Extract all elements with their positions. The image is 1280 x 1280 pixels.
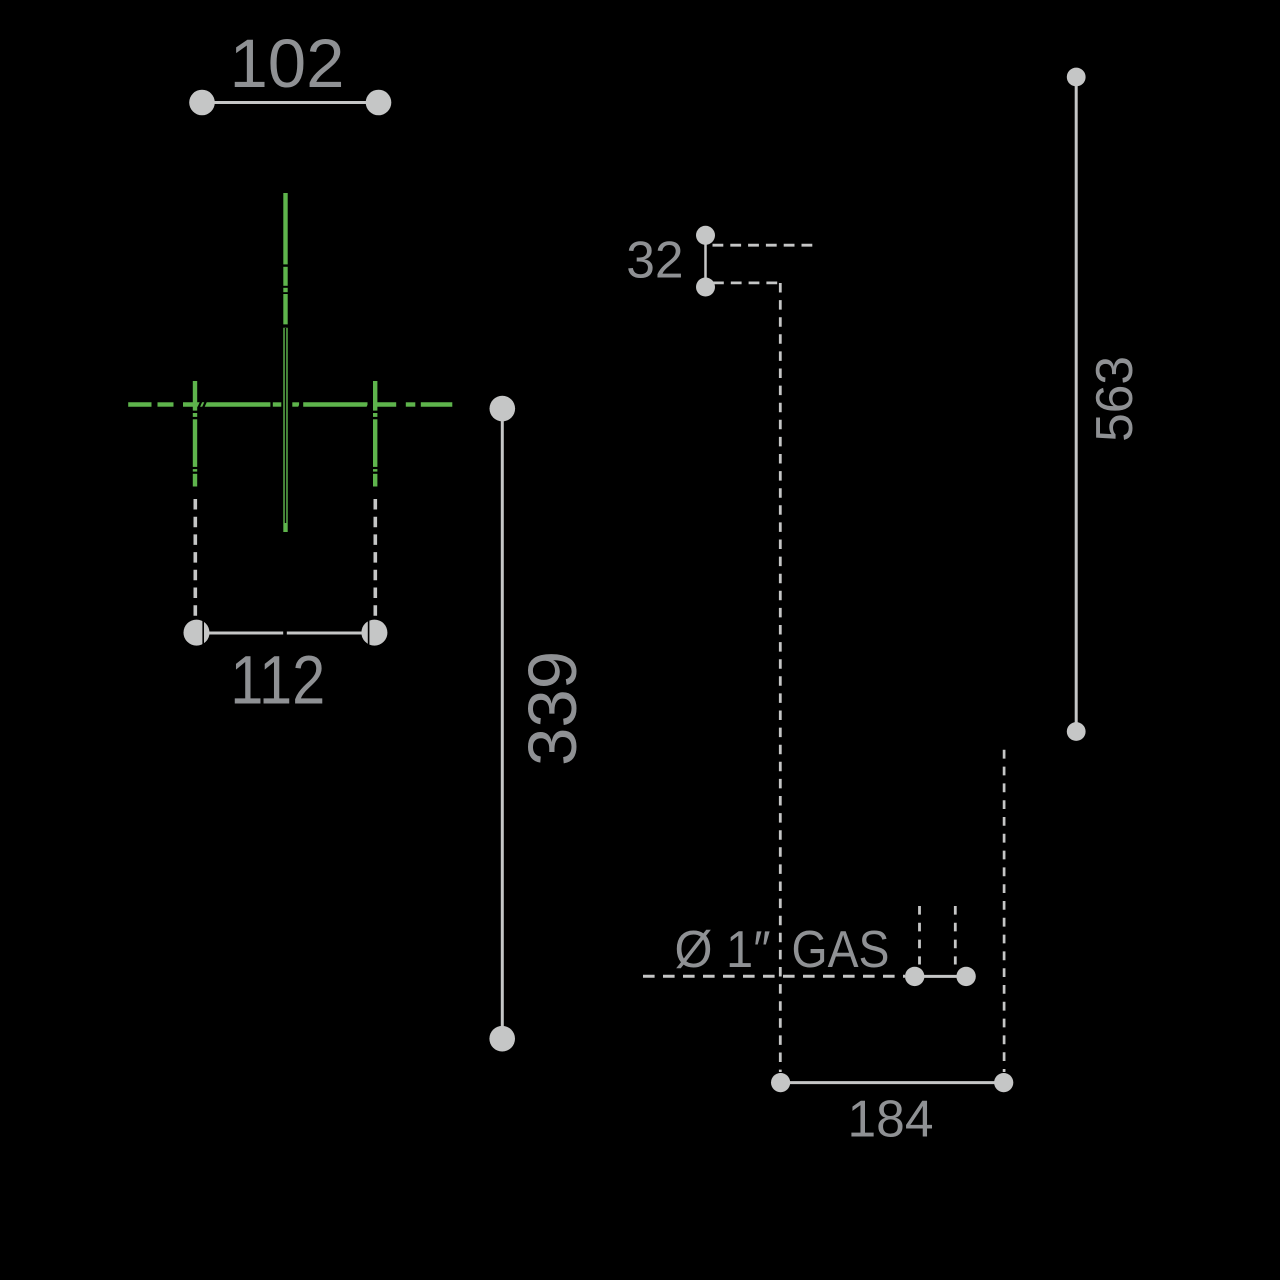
dim dot 184 right (994, 1073, 1013, 1092)
gray dashed extension line below right cross (373, 499, 377, 617)
dashed extension line right column (1003, 750, 1006, 1072)
gray dashed extension line below left cross (194, 499, 198, 617)
svg-text:112: 112 (230, 641, 325, 718)
dim dot 32 top (696, 226, 715, 245)
gas mini dim dot left (905, 967, 924, 986)
dimension line 184 (781, 1081, 1004, 1084)
svg-text:Ø 1″: Ø 1″ (675, 920, 771, 978)
svg-text:184: 184 (848, 1090, 934, 1148)
dimension line 112 (197, 632, 375, 635)
gas thread mini dimension: short dashed line left (918, 906, 921, 965)
black interruption ticks on center axis (283, 264, 288, 294)
dim dot 102 right (366, 90, 392, 116)
long dashed extension line down from 32 (779, 283, 782, 1072)
black gap on 112 line at center axis (283, 630, 287, 636)
black outline slits over 112 dots (202, 619, 204, 646)
svg-text:339: 339 (514, 651, 591, 766)
svg-text:GAS: GAS (792, 920, 890, 978)
dim dot 339 bottom (489, 1026, 515, 1052)
dimension line 339 (vertical) (501, 409, 504, 1039)
black product-outline core over center axis (285, 328, 287, 523)
gas mini dim dot right (956, 967, 975, 986)
gas thread mini dimension: short dashed line right (954, 906, 957, 965)
green cross vertical left (193, 381, 197, 487)
svg-text:32: 32 (626, 231, 683, 289)
dim dot 102 left (189, 90, 215, 116)
green cross vertical right (373, 381, 377, 487)
dashed reference line lower (from 32 bottom) (713, 281, 780, 284)
dim dot 112 left (184, 620, 210, 646)
dim dot 184 left (771, 1073, 790, 1092)
dashed reference line upper (from 32 top) (713, 244, 813, 247)
dimension line 32 (vertical) (704, 235, 707, 287)
green centerline vertical (center axis) (283, 193, 287, 532)
dim dot 339 top (490, 396, 516, 422)
dim dot 112 right (361, 620, 387, 646)
black slash marks on horizontal centerline near left cross (197, 398, 376, 411)
green centerline horizontal (128, 402, 452, 406)
dashed reference line at gas thread level (643, 975, 905, 978)
dim dot 32 bottom (696, 278, 715, 297)
black marks on right cross (373, 411, 378, 474)
svg-text:102: 102 (229, 25, 344, 102)
black marks on left cross (193, 411, 198, 474)
dim dot 563 top (1067, 68, 1086, 87)
svg-text:563: 563 (1085, 356, 1143, 442)
dimension line 102 (202, 101, 379, 104)
dimension line 563 (vertical) (1075, 77, 1078, 732)
dim dot 563 bottom (1067, 722, 1086, 741)
gas mini dimension line (915, 975, 966, 978)
